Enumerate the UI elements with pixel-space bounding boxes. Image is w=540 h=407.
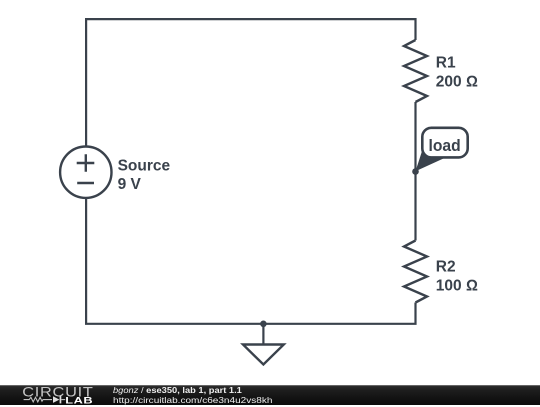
circuitlab logo bbox=[18, 386, 98, 407]
ground stub wire bbox=[262, 324, 264, 345]
svg-text:9 V: 9 V bbox=[118, 176, 142, 193]
load callout bubble bbox=[422, 128, 467, 158]
ground symbol bbox=[243, 345, 284, 365]
footer line 1 bbox=[113, 386, 242, 395]
svg-text:load: load bbox=[429, 136, 461, 155]
resistor R2 bbox=[404, 241, 427, 303]
footer line 2 bbox=[113, 396, 272, 405]
svg-text:100 Ω: 100 Ω bbox=[436, 277, 478, 294]
svg-text:R2: R2 bbox=[436, 258, 456, 275]
minus sign bbox=[77, 182, 94, 184]
logo resistor bbox=[24, 397, 52, 402]
load callout tail bbox=[416, 147, 445, 172]
wire bottom bbox=[86, 198, 415, 324]
resistor R1 bbox=[404, 40, 427, 102]
node dot ground bbox=[260, 321, 267, 328]
wire right middle (R1 bottom to R2 top) bbox=[414, 102, 416, 241]
svg-text:R1: R1 bbox=[436, 55, 456, 72]
logo diode bbox=[53, 396, 59, 403]
svg-text:200 Ω: 200 Ω bbox=[436, 73, 478, 90]
voltage source V1 circle bbox=[60, 147, 111, 198]
wire top bbox=[86, 19, 415, 147]
svg-text:Source: Source bbox=[118, 157, 171, 174]
plus sign bbox=[77, 154, 95, 172]
footer bar bbox=[0, 385, 540, 405]
node dot load bbox=[412, 168, 419, 175]
